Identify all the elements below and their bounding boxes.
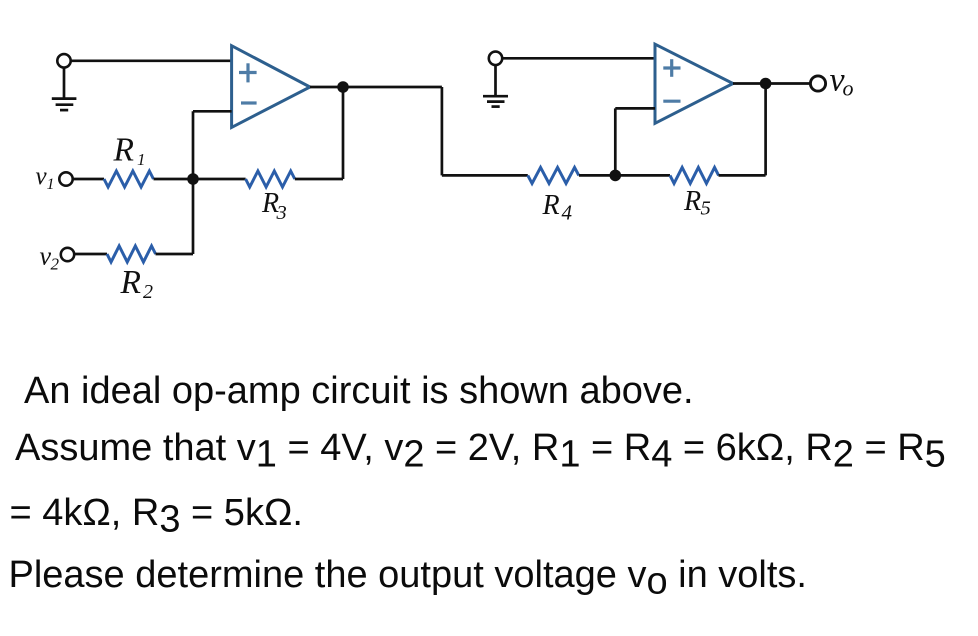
wire: riser from R5 up to U2 output node [764, 84, 767, 176]
terminal v1 circle [59, 172, 72, 185]
terminal vo circle [810, 76, 825, 91]
svg-text:2: 2 [51, 255, 60, 274]
ground G1 terminal circle [57, 54, 70, 67]
wire: U1 output [310, 86, 442, 89]
node C junction dot [610, 170, 622, 182]
op-amp U1 [232, 46, 310, 128]
wire: to R4 [442, 174, 528, 177]
wire: feedback riser from node C [614, 108, 617, 175]
resistor R4 [528, 167, 579, 183]
svg-text:R: R [120, 264, 141, 301]
node D junction dot (U2 output) [760, 78, 772, 90]
problem text line 3 [10, 494, 303, 532]
problem text line 2 [15, 429, 946, 467]
wire: G1 to op-amp U1 + input [71, 59, 232, 62]
resistor R2 [107, 246, 156, 262]
svg-text:4: 4 [562, 201, 573, 225]
svg-text:R: R [113, 132, 134, 169]
ground G1 symbol [52, 99, 77, 111]
ground G1 stem wire [63, 68, 66, 97]
wire: U2 output to vo terminal [733, 82, 811, 85]
wire: R2 to vertical bus [156, 253, 194, 256]
svg-text:R: R [683, 186, 701, 217]
op-amp U2 [655, 44, 733, 123]
resistor R5 [670, 167, 719, 183]
svg-text:1: 1 [137, 150, 146, 169]
ground G2 terminal circle [489, 52, 502, 65]
svg-text:5: 5 [701, 198, 711, 220]
svg-text:1: 1 [47, 176, 55, 193]
svg-text:2: 2 [143, 281, 153, 303]
terminal v2 circle [61, 248, 74, 261]
wire: vertical bus x=193 from minus input through node A down to R2 [192, 111, 195, 254]
wire: node C to R5 [615, 174, 670, 177]
svg-text:3: 3 [276, 202, 287, 224]
wire: riser from R3 up to U1 output node [342, 87, 345, 179]
problem text line 4 [9, 556, 808, 594]
op-amp U1 minus sign [241, 101, 257, 104]
wire: G2 to op-amp U2 + input [502, 57, 655, 60]
problem text line 1 [24, 372, 694, 410]
wire: to U2 inverting input [615, 107, 655, 110]
wire: v2 to R2 [74, 253, 107, 256]
resistor R3 [246, 171, 295, 187]
wire: R3 to output riser [295, 178, 343, 181]
ground G2 symbol [483, 96, 508, 106]
node B junction dot (U1 output) [337, 81, 349, 93]
wire: v1 to R1 [73, 178, 104, 181]
svg-text:R: R [542, 190, 560, 221]
wire: R1 to node A [154, 178, 194, 181]
wire: R5 to output riser [719, 174, 766, 177]
op-amp U2 minus sign [663, 100, 680, 103]
resistor R1 [104, 171, 153, 187]
wire: R4 to node C [579, 174, 615, 177]
wire: node A to R3 [193, 178, 246, 181]
op-amp U1 plus sign [239, 63, 257, 82]
node A junction dot [187, 173, 199, 185]
wire: down from U1 output run to R4 row [441, 87, 444, 175]
wire: U1 inverting input horizontal [193, 110, 232, 113]
ground G2 stem wire [494, 66, 497, 95]
op-amp U2 plus sign [663, 59, 680, 77]
svg-text:o: o [843, 76, 854, 101]
